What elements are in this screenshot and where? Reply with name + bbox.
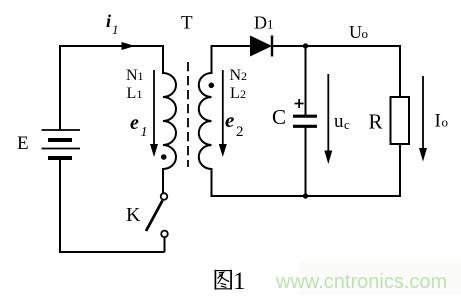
svg-text:1: 1: [141, 125, 148, 140]
svg-text:2: 2: [240, 87, 246, 101]
svg-text:2: 2: [241, 69, 247, 83]
svg-text:L: L: [230, 85, 240, 102]
svg-text:N: N: [126, 67, 138, 84]
wire capacitor bottom lead: [305, 127, 307, 196]
wire load top lead: [399, 45, 401, 97]
uc arrow: [327, 74, 329, 152]
wire battery top lead: [59, 45, 61, 130]
svg-text:1: 1: [138, 69, 144, 83]
transformer core: [187, 62, 189, 167]
svg-text:U: U: [349, 22, 362, 42]
svg-text:o: o: [362, 26, 369, 41]
svg-text:N: N: [230, 67, 242, 84]
svg-text:L: L: [127, 85, 137, 102]
emf arrow e2: [222, 70, 224, 146]
resistor R: [391, 97, 410, 144]
svg-text:K: K: [126, 204, 141, 226]
svg-text:i: i: [106, 11, 111, 31]
polarity dot primary: [161, 154, 167, 160]
svg-text:1: 1: [267, 17, 274, 32]
wire load bottom lead: [399, 144, 401, 197]
primary winding N1: [163, 45, 176, 193]
current arrow i1: [122, 42, 136, 50]
watermark background: [298, 261, 461, 295]
svg-text:e: e: [130, 112, 139, 134]
emf arrow e1: [153, 70, 155, 146]
svg-text:c: c: [344, 117, 350, 132]
svg-text:1: 1: [112, 22, 119, 37]
capacitor C: [293, 116, 317, 126]
Io arrow: [422, 76, 424, 150]
svg-text:C: C: [272, 105, 286, 129]
wire top-right horizontal: [272, 45, 400, 47]
svg-text:1: 1: [233, 268, 246, 295]
caption figure 1 glyph tu: [215, 270, 232, 290]
secondary winding N2: [199, 45, 212, 196]
svg-text:o: o: [442, 115, 449, 130]
svg-text:R: R: [369, 110, 383, 134]
svg-text:I: I: [435, 111, 441, 132]
svg-text:e: e: [225, 108, 234, 132]
svg-text:T: T: [181, 13, 193, 34]
svg-text:2: 2: [236, 124, 244, 140]
svg-text:1: 1: [137, 87, 143, 101]
polarity dot secondary: [209, 83, 215, 89]
junction node top: [303, 43, 308, 48]
wire battery bottom lead: [59, 158, 61, 253]
svg-text:u: u: [334, 111, 344, 132]
wire top-left horizontal: [59, 45, 164, 47]
svg-text:E: E: [17, 133, 29, 154]
diode D1: [250, 36, 272, 57]
wire bottom-left horizontal: [59, 251, 165, 253]
svg-text:www.cntronics.com: www.cntronics.com: [275, 271, 447, 293]
wire bottom horizontal: [211, 195, 401, 197]
wire capacitor top lead: [305, 46, 307, 115]
battery E: [42, 130, 81, 158]
plus sign: [295, 99, 304, 108]
junction node bottom: [303, 193, 308, 198]
svg-text:D: D: [254, 13, 267, 33]
wire secondary top horizontal: [211, 45, 251, 47]
switch K: [146, 193, 168, 252]
